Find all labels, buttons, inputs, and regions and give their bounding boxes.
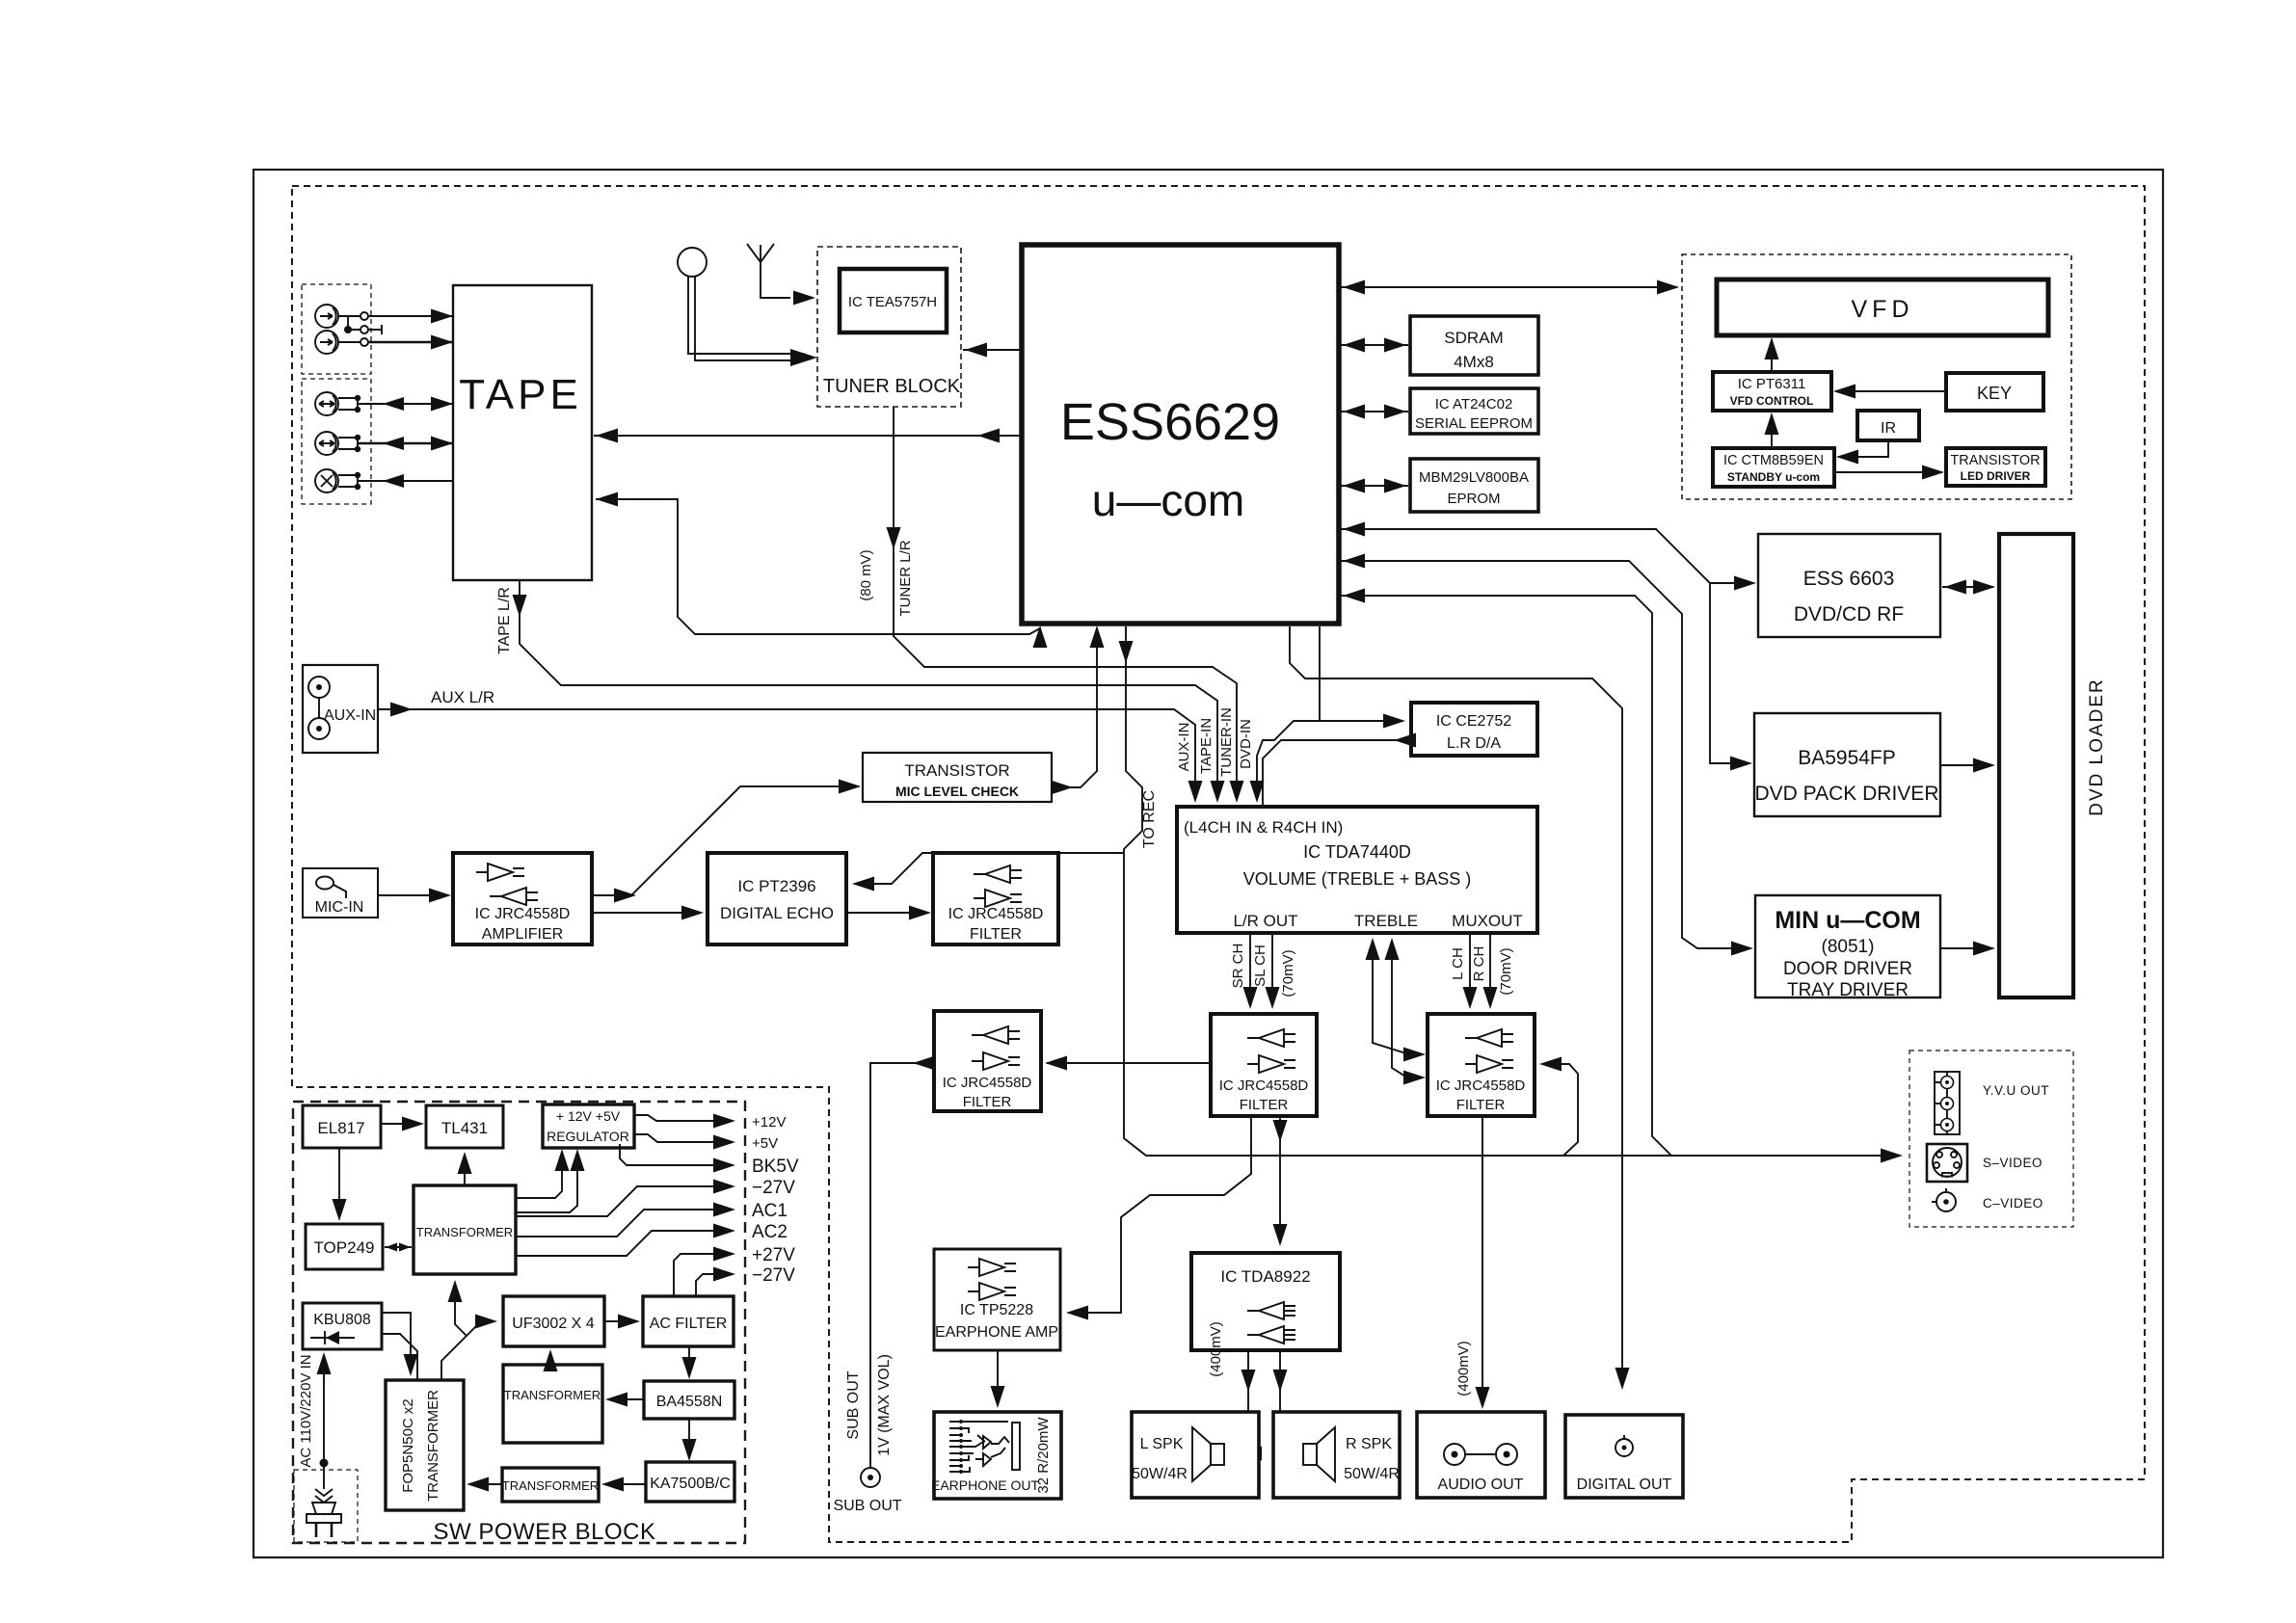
record head dashed box — [302, 284, 371, 374]
+12V +5V REGULATOR — [543, 1104, 634, 1148]
svg-text:R CH: R CH — [1471, 946, 1487, 982]
wire TO REC into ESS — [1051, 625, 1158, 848]
ESS6629 u-com main IC — [1022, 245, 1339, 624]
wire AUX L/R to TDA7440D — [378, 688, 1203, 803]
play head 2 — [315, 432, 338, 455]
svg-text:50W/4R: 50W/4R — [1344, 1466, 1400, 1482]
power rail AC1 — [516, 1201, 788, 1237]
svg-text:AC2: AC2 — [752, 1222, 788, 1242]
svg-text:(8051): (8051) — [1822, 937, 1875, 957]
SDRAM 4Mx8 — [1410, 316, 1538, 375]
IR — [1857, 411, 1919, 440]
wire ESS down to PT2396 / video line — [852, 626, 1903, 1163]
wire ESS to S-VIDEO — [1341, 589, 1671, 1157]
svg-text:MIN u—COM: MIN u—COM — [1775, 907, 1920, 934]
svg-text:IC JRC4558D: IC JRC4558D — [948, 906, 1044, 922]
IC PT2396 DIGITAL ECHO — [707, 853, 846, 945]
svg-text:TRANSISTOR: TRANSISTOR — [1950, 453, 2040, 468]
wire ESS to EEPROM — [1341, 405, 1408, 419]
wire transformer to TL431 — [458, 1152, 472, 1185]
svg-text:BA5954FP: BA5954FP — [1798, 747, 1896, 769]
power rail +12V — [634, 1114, 786, 1131]
svg-text:EPROM: EPROM — [1447, 491, 1500, 507]
svg-text:TRANSFORMER: TRANSFORMER — [502, 1478, 599, 1493]
power rail +5V — [634, 1134, 778, 1152]
wire AC in to KBU808 — [298, 1352, 332, 1489]
wire mid transformer to UF3002 — [544, 1349, 558, 1371]
svg-text:TRANSFORMER: TRANSFORMER — [504, 1388, 601, 1402]
wires TREBLE feedback from right filter — [1366, 938, 1427, 1085]
UF3002 X 4 — [503, 1296, 604, 1346]
IC JRC4558D AMPLIFIER — [453, 853, 592, 945]
EARPHONE OUT jack box — [931, 1412, 1061, 1499]
IC TP5228 EARPHONE AMP — [934, 1249, 1060, 1350]
wire IR to CTM8B59EN — [1836, 440, 1888, 465]
wire BA4558N to KA7500B/C — [682, 1419, 697, 1461]
wire head2 to TAPE — [338, 335, 453, 350]
svg-text:Y.V.U OUT: Y.V.U OUT — [1983, 1083, 2049, 1098]
svg-text:DVD-IN: DVD-IN — [1238, 719, 1254, 769]
svg-text:STANDBY u-com: STANDBY u-com — [1727, 470, 1820, 484]
svg-text:TAPE-IN: TAPE-IN — [1198, 718, 1215, 774]
svg-text:(L4CH IN & R4CH IN): (L4CH IN & R4CH IN) — [1184, 818, 1343, 837]
wire BA4558N to mid transformer — [605, 1393, 644, 1407]
wire CTM8B59EN to PT6311 — [1765, 412, 1779, 448]
wire TUNER L/R out to TDA7440D tuner-in — [858, 407, 1244, 803]
wire TP5228 to EARPHONE OUT — [991, 1350, 1005, 1408]
wire EL817 to TL431 — [381, 1117, 424, 1131]
wire MIN u-COM to DVD LOADER — [1940, 942, 1995, 956]
svg-text:4Mx8: 4Mx8 — [1454, 353, 1494, 371]
IC CE2752 L.R D/A — [1411, 703, 1537, 756]
svg-text:L/R OUT: L/R OUT — [1233, 912, 1297, 930]
svg-text:MUXOUT: MUXOUT — [1452, 912, 1523, 930]
svg-text:IC CTM8B59EN: IC CTM8B59EN — [1723, 453, 1824, 468]
svg-text:TUNER-IN: TUNER-IN — [1218, 707, 1235, 777]
AC FILTER — [643, 1296, 734, 1346]
svg-text:SL CH: SL CH — [1252, 945, 1268, 987]
KEY — [1946, 373, 2043, 411]
svg-text:TL431: TL431 — [441, 1119, 488, 1137]
svg-text:L.R D/A: L.R D/A — [1447, 735, 1501, 752]
KA7500B/C — [646, 1462, 734, 1502]
R SPK 50W/4R — [1273, 1412, 1400, 1498]
wire ESS6629 to TUNER BLOCK — [963, 343, 1022, 358]
svg-text:MBM29LV800BA: MBM29LV800BA — [1419, 469, 1529, 486]
svg-text:AC 110V/220V IN: AC 110V/220V IN — [298, 1354, 314, 1467]
IC CTM8B59EN STANDBY u-com — [1713, 448, 1834, 487]
svg-text:KBU808: KBU808 — [313, 1312, 371, 1328]
wire center filter to TP5228 — [1066, 1116, 1251, 1320]
svg-text:(70mV): (70mV) — [1280, 949, 1296, 997]
svg-text:TUNER L/R: TUNER L/R — [897, 540, 914, 616]
svg-text:+ 12V +5V: + 12V +5V — [556, 1108, 621, 1124]
svg-text:SW POWER BLOCK: SW POWER BLOCK — [433, 1519, 655, 1545]
wire CTM8B59EN to LED DRIVER — [1834, 466, 1944, 480]
head junction node — [344, 316, 382, 334]
svg-text:FILTER: FILTER — [970, 926, 1022, 943]
svg-text:+12V: +12V — [752, 1114, 786, 1131]
DIGITAL OUT — [1565, 1415, 1683, 1498]
svg-text:EARPHONE AMP: EARPHONE AMP — [935, 1324, 1058, 1341]
wire ESS to SDRAM — [1341, 338, 1408, 353]
svg-text:ESS 6603: ESS 6603 — [1803, 568, 1895, 590]
wire TAPE L/R out to TDA7440D tape-in — [496, 580, 1225, 803]
svg-text:FOP5N50C x2: FOP5N50C x2 — [400, 1398, 416, 1493]
MIC-IN box — [303, 868, 378, 918]
svg-text:IC CE2752: IC CE2752 — [1436, 713, 1511, 730]
svg-text:IC PT6311: IC PT6311 — [1738, 376, 1806, 392]
wire PT2396 to first filter — [846, 906, 931, 920]
BA5954FP DVD PACK DRIVER — [1754, 713, 1940, 816]
power rail -27V — [516, 1178, 795, 1216]
AC plug — [307, 1489, 341, 1537]
MIN u-COM (8051) DOOR DRIVER TRAY DRIVER — [1755, 895, 1940, 1000]
svg-text:DVD/CD RF: DVD/CD RF — [1794, 603, 1904, 625]
wire CE2752 out to TDA7440D — [1263, 733, 1416, 808]
svg-text:−27V: −27V — [752, 1178, 795, 1198]
svg-text:EARPHONE OUT: EARPHONE OUT — [931, 1477, 1039, 1493]
MBM29LV800BA EPROM — [1410, 459, 1538, 512]
wire right filter to AUDIO OUT — [1455, 1116, 1490, 1409]
svg-text:TOP249: TOP249 — [313, 1238, 374, 1257]
svg-text:AMPLIFIER: AMPLIFIER — [482, 926, 563, 943]
svg-text:+27V: +27V — [752, 1245, 795, 1265]
svg-text:SERIAL EEPROM: SERIAL EEPROM — [1415, 415, 1533, 432]
svg-text:TRANSISTOR: TRANSISTOR — [904, 761, 1009, 780]
video out dashed box — [1909, 1051, 2073, 1227]
wire KA7500B/C to bottom transformer — [601, 1477, 646, 1492]
wires MUXOUT to right filter — [1450, 933, 1514, 1009]
svg-text:FILTER: FILTER — [1240, 1097, 1289, 1113]
first IC JRC4558D FILTER (echo) — [933, 853, 1058, 945]
svg-text:LED DRIVER: LED DRIVER — [1961, 469, 2031, 483]
wire play head2 to TAPE — [338, 435, 453, 452]
svg-text:(70mV): (70mV) — [1498, 947, 1514, 995]
wire FOP branch to main transformer — [448, 1280, 467, 1336]
outer frame border — [254, 170, 2163, 1557]
wire KBU808 to FOP transformer — [382, 1313, 418, 1380]
svg-text:L CH: L CH — [1450, 947, 1466, 980]
svg-text:UF3002 X 4: UF3002 X 4 — [512, 1316, 594, 1332]
VFD dashed box — [1682, 254, 2071, 499]
TRANSFORMER (main) — [414, 1185, 516, 1274]
wire center filter to left filter — [1045, 1056, 1211, 1071]
wire ESS to EPROM — [1341, 479, 1408, 493]
svg-text:FILTER: FILTER — [1456, 1097, 1506, 1113]
svg-text:TAPE: TAPE — [459, 371, 582, 418]
SUB OUT jack — [833, 1468, 901, 1514]
svg-text:DVD LOADER: DVD LOADER — [2087, 678, 2107, 816]
svg-text:(80 mV): (80 mV) — [858, 549, 874, 600]
svg-text:50W/4R: 50W/4R — [1132, 1466, 1188, 1482]
wire ESS6629 to TAPE (rec) — [594, 429, 1022, 443]
ESS 6603 DVD/CD RF — [1758, 534, 1940, 637]
AUX-IN jack box — [303, 665, 378, 753]
svg-text:TRANSFORMER: TRANSFORMER — [425, 1390, 441, 1502]
S-VIDEO jack — [1927, 1144, 2042, 1182]
svg-text:VFD: VFD — [1852, 296, 1914, 323]
IC TEA5757H — [840, 269, 947, 333]
svg-text:SUB OUT: SUB OUT — [833, 1498, 901, 1514]
wire BA5954FP to DVD LOADER — [1940, 758, 1995, 773]
erase head — [315, 469, 338, 492]
wire center filter to TDA8922 — [1273, 1116, 1288, 1246]
C-VIDEO jack — [1932, 1188, 2043, 1211]
wire TDA8922 to R SPK — [1273, 1350, 1298, 1461]
svg-text:IC TDA8922: IC TDA8922 — [1220, 1267, 1310, 1286]
wire amplifier to PT2396 — [592, 906, 704, 920]
Y.V.U OUT component jacks — [1935, 1072, 2049, 1134]
FM loop antenna — [678, 248, 804, 360]
svg-text:IC TEA5757H: IC TEA5757H — [848, 294, 937, 310]
wire FOP transformer to UF3002 — [441, 1315, 497, 1381]
power rail +27V — [674, 1245, 795, 1296]
svg-text:IC JRC4558D: IC JRC4558D — [1219, 1078, 1309, 1094]
wire AC FILTER to BA4558N — [682, 1346, 697, 1379]
AC plug dashed box — [294, 1470, 358, 1542]
svg-text:IC AT24C02: IC AT24C02 — [1435, 396, 1513, 412]
svg-text:VFD CONTROL: VFD CONTROL — [1730, 394, 1814, 408]
TRANSFORMER (bottom) — [502, 1468, 599, 1502]
svg-text:(400mV): (400mV) — [1455, 1341, 1472, 1397]
wire TOP249 to transformer — [385, 1243, 412, 1252]
DVD LOADER — [1999, 534, 2107, 998]
svg-text:−27V: −27V — [752, 1265, 795, 1286]
svg-text:TRANSFORMER: TRANSFORMER — [416, 1225, 513, 1239]
record head 2 — [315, 331, 338, 354]
EL817 — [303, 1105, 381, 1148]
svg-text:IC PT2396: IC PT2396 — [737, 877, 815, 895]
svg-text:(400mV): (400mV) — [1208, 1321, 1224, 1377]
wire MIC-IN to amplifier — [378, 889, 451, 903]
IC TDA7440D VOLUME — [1177, 807, 1537, 933]
wire ESS to VFD block — [1341, 280, 1679, 295]
TRANSISTOR MIC LEVEL CHECK — [863, 753, 1052, 802]
play head 1 — [315, 392, 338, 415]
left IC JRC4558D FILTER (sub) — [934, 1011, 1041, 1111]
svg-text:BK5V: BK5V — [752, 1157, 799, 1177]
svg-text:IC JRC4558D: IC JRC4558D — [475, 906, 571, 922]
wire PT6311 to VFD — [1765, 337, 1779, 372]
svg-text:DVD PACK DRIVER: DVD PACK DRIVER — [1755, 783, 1939, 805]
record head 1 — [315, 305, 338, 328]
wires transformer to regulator — [516, 1149, 585, 1212]
svg-text:SDRAM: SDRAM — [1444, 329, 1503, 347]
power rail -27V lower — [696, 1265, 795, 1296]
svg-text:IC TDA7440D: IC TDA7440D — [1303, 842, 1411, 862]
TUNER BLOCK dashed box — [817, 247, 961, 407]
AUDIO OUT — [1417, 1412, 1545, 1498]
TRANSISTOR LED DRIVER — [1946, 448, 2045, 486]
svg-text:DIGITAL ECHO: DIGITAL ECHO — [720, 904, 834, 922]
wire ESS to CE2752 and TDA7440D dvd-in — [1238, 626, 1405, 803]
svg-text:AUX-IN: AUX-IN — [324, 707, 376, 724]
TL431 — [426, 1105, 503, 1148]
TAPE block — [453, 285, 592, 580]
svg-text:TRAY DRIVER: TRAY DRIVER — [1787, 980, 1909, 1000]
svg-text:R SPK: R SPK — [1346, 1436, 1392, 1452]
wire video line branch to right filter — [1539, 1057, 1578, 1157]
SW power block dashed border — [293, 1102, 745, 1543]
svg-text:DIGITAL OUT: DIGITAL OUT — [1577, 1477, 1672, 1493]
svg-text:IC JRC4558D: IC JRC4558D — [943, 1075, 1032, 1091]
svg-text:DOOR DRIVER: DOOR DRIVER — [1783, 959, 1912, 979]
svg-text:MIC LEVEL CHECK: MIC LEVEL CHECK — [895, 784, 1019, 799]
svg-text:SR CH: SR CH — [1230, 944, 1246, 989]
svg-text:SUB OUT: SUB OUT — [845, 1370, 862, 1439]
wires L/R OUT to center filter — [1230, 933, 1296, 1009]
wire ESS to DIGITAL OUT — [1290, 626, 1630, 1390]
KBU808 — [303, 1303, 382, 1349]
FOP5N50C x2 TRANSFORMER — [386, 1380, 464, 1510]
TRANSFORMER (mid) — [503, 1365, 602, 1443]
svg-text:REGULATOR: REGULATOR — [547, 1129, 629, 1144]
L SPK 50W/4R — [1132, 1412, 1259, 1498]
wire EL817 to TOP249 — [333, 1148, 347, 1221]
svg-text:BA4558N: BA4558N — [656, 1394, 723, 1410]
svg-text:EL817: EL817 — [317, 1119, 364, 1137]
svg-text:TO REC: TO REC — [1141, 790, 1158, 848]
svg-text:IC TP5228: IC TP5228 — [960, 1302, 1033, 1318]
svg-text:+5V: +5V — [752, 1135, 778, 1152]
svg-text:AUX L/R: AUX L/R — [431, 688, 494, 706]
svg-text:KEY: KEY — [1977, 384, 2012, 403]
wire erase head to TAPE — [338, 472, 453, 490]
svg-text:TREBLE: TREBLE — [1354, 912, 1418, 930]
IC PT6311 VFD CONTROL — [1713, 372, 1831, 411]
IC TDA8922 power amp — [1191, 1253, 1340, 1377]
wire head1 to TAPE — [338, 309, 453, 324]
wire ESS to ESS6603 and BA5954FP — [1341, 522, 1756, 771]
wire bottom transformer to FOP transformer — [467, 1477, 502, 1492]
svg-text:ESS6629: ESS6629 — [1060, 393, 1280, 451]
wire amplifier to TRANSISTOR mic level check — [592, 780, 861, 903]
svg-text:AC FILTER: AC FILTER — [650, 1316, 728, 1332]
svg-text:S–VIDEO: S–VIDEO — [1983, 1156, 2042, 1170]
svg-text:KA7500B/C: KA7500B/C — [650, 1476, 731, 1492]
BA4558N — [644, 1381, 734, 1419]
svg-text:C–VIDEO: C–VIDEO — [1983, 1196, 2043, 1211]
svg-text:MIC-IN: MIC-IN — [315, 899, 364, 916]
wire ESS6603 to DVD LOADER — [1942, 580, 1995, 595]
svg-text:TAPE L/R: TAPE L/R — [496, 587, 513, 654]
svg-text:IC JRC4558D: IC JRC4558D — [1436, 1078, 1526, 1094]
play head dashed box — [302, 379, 371, 504]
power rail BK5V — [620, 1144, 799, 1177]
wire play head1 to TAPE — [338, 395, 453, 412]
TOP249 — [306, 1224, 383, 1269]
svg-text:VOLUME (TREBLE + BASS ): VOLUME (TREBLE + BASS ) — [1243, 869, 1472, 889]
right IC JRC4558D FILTER — [1428, 1014, 1535, 1116]
svg-text:TUNER BLOCK: TUNER BLOCK — [823, 376, 961, 397]
VFD display — [1717, 279, 2048, 335]
svg-text:AUX-IN: AUX-IN — [1176, 723, 1192, 772]
svg-text:AC1: AC1 — [752, 1201, 788, 1221]
wire TAPE aux return via x703 to ESS bottom — [596, 492, 1048, 649]
center IC JRC4558D FILTER — [1211, 1014, 1317, 1116]
svg-text:IR: IR — [1881, 420, 1896, 437]
wire left filter to SUB OUT — [845, 1056, 935, 1468]
svg-text:u—com: u—com — [1092, 475, 1244, 525]
power rail AC2 — [516, 1222, 788, 1256]
IC AT24C02 SERIAL EEPROM — [1410, 388, 1538, 434]
svg-text:L SPK: L SPK — [1140, 1436, 1184, 1452]
wire UF3002 to AC FILTER — [604, 1315, 640, 1329]
wire ESS to MIN u-COM — [1341, 554, 1753, 956]
svg-text:AUDIO OUT: AUDIO OUT — [1438, 1477, 1524, 1493]
dipole antenna — [747, 244, 790, 298]
svg-text:1V (MAX VOL): 1V (MAX VOL) — [876, 1354, 893, 1456]
svg-text:FILTER: FILTER — [963, 1094, 1012, 1110]
wire TDA8922 to L SPK — [1240, 1350, 1262, 1461]
main dashed border — [292, 186, 2145, 1542]
wire KEY to PT6311 — [1833, 385, 1946, 399]
